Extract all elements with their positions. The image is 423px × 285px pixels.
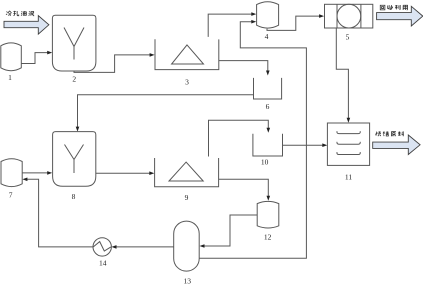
mixer tank 8 <box>53 132 96 187</box>
output block arrow (recycling) <box>377 6 423 26</box>
svg-text:14: 14 <box>99 259 107 268</box>
label 烧结原料 <box>376 131 404 136</box>
svg-text:8: 8 <box>72 192 76 201</box>
filter box 11 <box>327 123 369 165</box>
svg-text:2: 2 <box>72 75 76 84</box>
wire 4 to 5 <box>267 14 324 30</box>
arrowhead into 4 <box>251 20 256 24</box>
heat exchanger 14 <box>93 238 111 256</box>
wire 7 to 8 <box>22 171 52 175</box>
settling tank 3 <box>155 39 219 69</box>
svg-text:10: 10 <box>261 157 269 166</box>
wire 12 to 13 <box>200 215 258 248</box>
wire 5 to 11 <box>336 28 350 123</box>
svg-text:12: 12 <box>264 233 272 242</box>
tank T4 (cylinder 4) <box>257 2 279 28</box>
collecting tank 10 <box>253 134 283 156</box>
label 冷轧油泥 <box>6 11 34 16</box>
wire 14 to 7 <box>22 178 93 247</box>
collecting tank 6 <box>254 78 282 99</box>
buffer tank 13 <box>174 221 200 271</box>
magnetic separator 5 <box>325 4 373 28</box>
wire 2 to 3 <box>74 53 155 72</box>
wire 8 to 9 <box>96 171 155 175</box>
svg-text:5: 5 <box>346 33 350 42</box>
wire 3 to 6 <box>219 61 270 76</box>
tank T1 (cylinder 1) <box>1 43 22 71</box>
svg-text:4: 4 <box>265 32 269 41</box>
svg-text:11: 11 <box>345 173 352 182</box>
label 回收利用 <box>380 5 407 10</box>
svg-text:3: 3 <box>185 77 189 86</box>
pipe from tank 9 to 10 <box>209 120 271 156</box>
wire 10 to 11 <box>283 143 328 147</box>
wire 9 to 12 <box>219 179 271 201</box>
svg-text:6: 6 <box>266 102 270 111</box>
svg-text:7: 7 <box>9 190 13 199</box>
pipe from tank 3 to 4 <box>208 12 256 37</box>
input block arrow (cold-rolling oil sludge) <box>4 16 49 34</box>
tank T12 (cylinder 12) <box>257 201 279 228</box>
recycle wire 13 to 4 <box>199 22 306 259</box>
tank T7 (cylinder 7) <box>1 159 22 187</box>
svg-text:1: 1 <box>8 73 12 82</box>
mixer tank 2 <box>52 15 96 71</box>
wire 1 to 2 <box>21 51 52 64</box>
wire 6 to 8 <box>76 95 254 132</box>
wire 13 to 14 <box>112 245 174 249</box>
svg-text:13: 13 <box>184 276 192 285</box>
svg-text:9: 9 <box>185 193 189 202</box>
settling tank 9 <box>155 158 219 187</box>
output block arrow (sinter feedstock) <box>373 135 420 155</box>
